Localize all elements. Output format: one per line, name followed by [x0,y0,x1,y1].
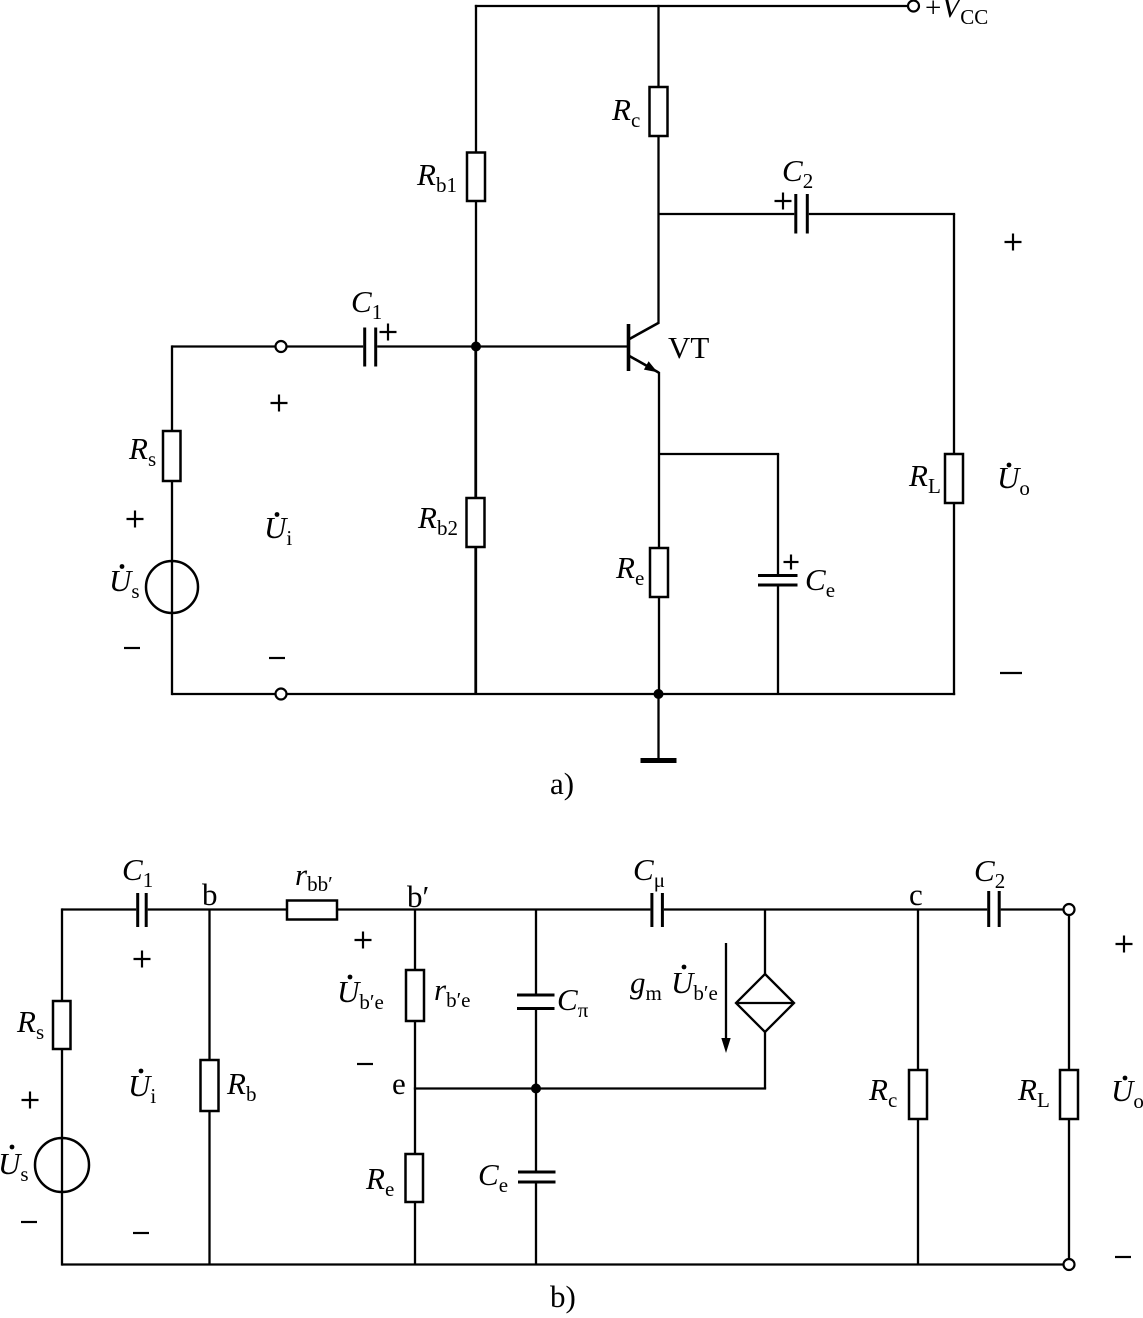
capacitor Cpi (b) [517,995,555,1009]
resistor rbb' (b) [287,901,337,920]
wire: Cpi branch bottom (b) [535,1010,537,1089]
label Rs (b) [16,1004,44,1044]
label Uo (a) [997,460,1030,500]
wire: bottom rail left (a) [172,693,276,695]
wire: top rail seg4 (b) [1001,908,1064,910]
wire: b' branch to e (b) [414,1021,416,1089]
label C2 plus (a) [775,193,792,210]
label Us plus (b) [22,1092,39,1109]
wire: bottom rail right (a) [287,693,956,695]
label rb'e (b) [434,972,471,1012]
label Us minus (a) [124,647,140,649]
wire: Rb1 branch bottom (a) [475,201,477,694]
label Rb2 (a) [417,500,458,540]
node base junction dot (a) [471,342,481,352]
wire: b' branch top (b) [414,910,416,972]
label Ui plus (b) [134,951,151,968]
wire: Re branch bottom (b) [414,1202,416,1265]
label Ub'e plus (b) [355,932,372,949]
resistor Rc (b) [909,1070,927,1119]
label C2 (b) [974,853,1005,893]
label Ui minus (a) [269,657,285,659]
node e junction dot (b) [531,1084,541,1094]
current arrow (b) [721,943,730,1053]
label Re (b) [365,1161,394,1201]
wire: base wire mid (a) [287,345,364,347]
capacitor C1 (b) [138,893,147,927]
label Ce (a) [805,562,835,602]
node emitter-ground junction dot (a) [654,689,664,699]
node c label (b) [909,877,923,912]
node b' (b) [407,879,429,914]
source Us circle (a) [146,561,198,613]
capacitor Cmu (b) [652,893,663,927]
label Cpi (b) [557,982,589,1022]
label Rc (b) [868,1072,897,1112]
label a) [550,766,574,801]
resistor Rb (b) [201,1060,219,1111]
label rbb' (b) [295,857,333,896]
label Ce plus (a) [784,555,799,570]
wire: source branch bottom (b) [764,1031,766,1089]
wire: +VCC top rail (a) [475,5,908,7]
wire: C2 branch right (a) [809,213,955,215]
wire: RL branch (b) [1068,915,1070,1259]
terminal +VCC (a) [908,1,919,12]
label Ui plus (a) [271,395,288,412]
wire: bottom rail (b) [62,1263,1064,1265]
label Ce (b) [478,1157,508,1197]
label Rb1 (a) [416,157,457,197]
label Us minus (b) [21,1221,37,1223]
svg-text:e: e [392,1066,406,1101]
wire: Rb1 branch top (a) [475,5,477,154]
resistor Rs (a) [163,431,181,481]
wire: top rail seg1 (b) [62,908,136,910]
wire: Rb2 branch (a) [474,347,476,695]
label C1 plus (a) [380,324,397,341]
svg-text:VT: VT [668,330,709,365]
node e label (b) [392,1066,406,1101]
capacitor Ce (a) [758,576,798,586]
svg-text:b): b) [550,1279,576,1314]
wire: Cpi branch top (b) [535,910,537,994]
capacitor Ce (b) [518,1172,556,1182]
resistor RL (a) [945,454,963,503]
label Rs (a) [128,431,156,471]
svg-text:c: c [909,877,923,912]
terminal output bottom (b) [1064,1259,1075,1270]
label Ub'e minus (b) [357,1063,373,1065]
transistor VT emitter lead [629,356,660,373]
label Uo minus (a) [1000,672,1022,674]
wire: Rc branch top (a) [657,5,659,88]
resistor Re (a) [650,548,668,597]
wire: Ce branch down (a) [777,454,779,574]
label Us (a) [109,563,140,603]
wire: Ce branch top (b) [535,1089,537,1171]
label gmUb'e (b) [630,965,718,1005]
label Ui minus (b) [133,1232,149,1234]
capacitor C1 (a) [365,328,376,367]
label VT [668,330,709,365]
terminal input top (a) [276,341,287,352]
label +VCC (a) [925,0,988,29]
resistor rb'e (b) [406,970,424,1021]
resistor Rb2 (a) [467,498,485,547]
label Ui (b) [128,1068,156,1108]
wire: Ce branch bottom (a) [777,587,779,695]
svg-text:b′: b′ [407,879,429,914]
wire: RL branch bottom (a) [953,503,955,695]
label Uo plus (a) [1005,234,1022,251]
wire: Re branch top (b) [414,1089,416,1156]
label Uo plus (b) [1116,936,1133,953]
label RL (a) [908,458,941,498]
wire: left source branch (a) [171,345,173,695]
label Ub'e (b) [337,974,384,1014]
label Us plus (a) [127,511,144,528]
wire: source branch top (b) [764,910,766,976]
wire: Rc branch to collector (a) [657,136,659,323]
ground stub (a) [657,694,659,758]
wire: Rb branch (b) [208,910,210,1265]
terminal input bottom (a) [276,689,287,700]
wire: base wire left (a) [172,345,276,347]
transistor VT collector lead [629,323,660,340]
label Rb (b) [226,1066,256,1106]
ground symbol (a) [641,758,677,763]
svg-text:b: b [202,877,218,912]
label Ui (a) [264,510,292,550]
node b (b) [202,877,218,912]
label RL (b) [1017,1072,1050,1112]
resistor Rs (b) [53,1001,71,1049]
wire: emitter vertical (a) [658,372,660,694]
label Us (b) [0,1145,29,1186]
label Uo (b) [1111,1073,1143,1113]
wire: left source branch (b) [61,908,63,1265]
label C1 (a) [351,284,382,324]
transistor VT base bar [627,324,631,371]
label Re (a) [615,550,644,590]
resistor RL (b) [1060,1070,1078,1119]
label Rc (a) [611,92,640,132]
terminal output top (b) [1064,904,1075,915]
resistor Re (b) [406,1154,424,1202]
label C2 (a) [782,153,813,193]
label b) [550,1279,576,1314]
wire: Rc branch (b) [917,910,919,1265]
capacitor C2 (a) [796,194,808,234]
wire: emitter branch to Ce (a) [659,453,779,455]
source Us circle (b) [35,1138,89,1192]
wire: Ce branch bottom (b) [535,1184,537,1265]
wire: base wire right (a) [377,345,627,347]
wire: top rail seg3 (b) [664,908,987,910]
wire: RL branch top (a) [953,214,955,455]
wire: top rail seg2 (b) [148,908,651,910]
current source gmUb'e diamond (b) [736,974,794,1032]
resistor Rc (a) [650,87,668,136]
wire: C2 branch left (a) [659,213,795,215]
capacitor C2 (b) [989,891,1000,927]
label C1 (b) [122,852,153,892]
svg-text:a): a) [550,766,574,801]
resistor Rb1 (a) [467,153,485,202]
label Cmu (b) [633,852,665,892]
label Uo minus (b) [1115,1256,1131,1258]
wire: e horizontal wire (b) [414,1087,766,1089]
